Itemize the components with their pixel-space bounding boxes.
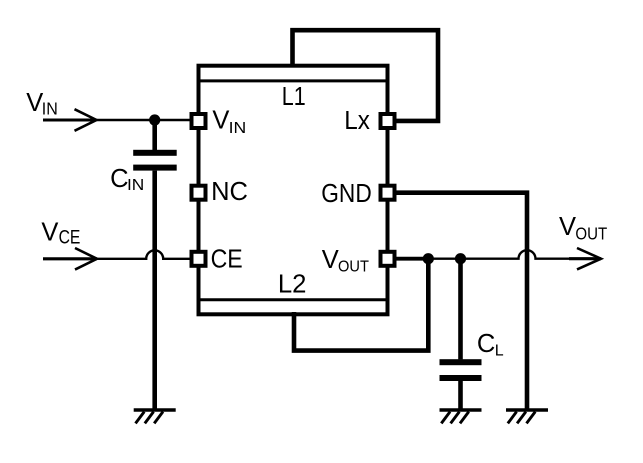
node junction VIN/CIN <box>149 114 160 125</box>
capacitor CL <box>440 259 482 409</box>
pin label CE <box>211 245 243 273</box>
wire GND pin to ground <box>393 193 527 409</box>
label L2 <box>278 270 307 298</box>
pin VIN terminal square <box>192 114 206 128</box>
svg-text:Lx: Lx <box>344 107 370 135</box>
wire CE input line with hop over CIN wire <box>43 250 190 259</box>
svg-text:IN: IN <box>229 120 247 137</box>
net label VIN <box>26 89 58 119</box>
svg-text:L2: L2 <box>278 270 307 298</box>
wire VOUT output line with hop over GND wire <box>428 250 601 259</box>
pin GND terminal square <box>381 186 395 200</box>
inductor L1 (integrated coil bar, top) <box>201 79 386 82</box>
svg-text:NC: NC <box>211 178 248 206</box>
svg-text:V: V <box>559 213 576 241</box>
pin label NC <box>211 178 248 206</box>
label CIN <box>110 165 144 194</box>
wire from L1 top tap up and around to Lx pin <box>293 30 439 121</box>
svg-text:IN: IN <box>42 99 58 119</box>
IC module body (outline) <box>199 66 388 315</box>
svg-text:V: V <box>322 246 339 274</box>
capacitor CIN <box>133 120 177 409</box>
node junction VOUT/L2 loop <box>423 253 434 264</box>
svg-text:CE: CE <box>59 227 81 248</box>
wire VOUT pin to junction node <box>394 257 428 261</box>
pin VOUT terminal square <box>381 252 395 266</box>
svg-text:L1: L1 <box>282 83 306 111</box>
net label VCE <box>41 218 80 248</box>
label CL <box>477 330 504 359</box>
svg-text:OUT: OUT <box>575 223 607 243</box>
svg-text:V: V <box>41 218 58 246</box>
pin NC terminal square <box>192 186 206 200</box>
svg-text:V: V <box>26 89 43 117</box>
inductor L2 (integrated coil bar, bottom) <box>201 298 386 301</box>
svg-text:L: L <box>495 342 504 359</box>
arrow on CE input <box>75 248 97 270</box>
pin label Lx <box>344 107 370 135</box>
arrow on VIN input <box>75 109 97 131</box>
pin CE terminal square <box>192 252 206 266</box>
wire from L2 bottom tap down and around to VOUT node <box>294 259 428 351</box>
pin label VOUT <box>322 246 369 276</box>
arrow on VOUT output <box>577 248 601 269</box>
svg-text:V: V <box>212 107 229 135</box>
ground below GND wire <box>506 410 548 423</box>
net label VOUT <box>559 213 608 243</box>
svg-text:OUT: OUT <box>338 259 369 276</box>
svg-text:IN: IN <box>127 177 144 194</box>
pin label GND <box>321 180 371 208</box>
ground below CL <box>440 410 482 423</box>
svg-text:C: C <box>477 330 495 358</box>
pin label VIN <box>212 107 246 137</box>
pin Lx terminal square <box>381 114 395 128</box>
node junction VOUT/CL <box>455 253 466 264</box>
ground below CIN <box>134 410 176 423</box>
label L1 <box>282 83 306 111</box>
svg-text:GND: GND <box>321 180 371 208</box>
svg-text:CE: CE <box>211 245 243 273</box>
svg-text:C: C <box>110 165 128 193</box>
wire VIN input line <box>43 118 190 121</box>
